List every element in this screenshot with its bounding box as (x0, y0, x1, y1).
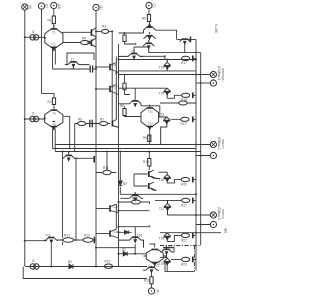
svg-text:R6: R6 (78, 118, 82, 122)
svg-text:T16: T16 (137, 234, 143, 238)
wire x116 lower (115, 204, 117, 229)
resistor R20 row3 (181, 116, 193, 122)
svg-text:R17: R17 (181, 61, 187, 65)
terminal pin1 (38, 3, 44, 9)
svg-text:R1: R1 (48, 19, 52, 23)
resistor R25 hatched (123, 35, 126, 42)
node j8 (95, 66, 97, 68)
wire T16 top (134, 227, 136, 241)
transistor T22 bottom left (44, 238, 58, 243)
transistor T4 bar (90, 40, 92, 47)
resistor R22 row5 (182, 198, 193, 204)
wire row2 lower y98.3 (167, 95, 196, 98)
svg-text:R12: R12 (132, 197, 138, 201)
wire topright block (177, 39, 196, 52)
wire T2 base y32.3 (63, 31, 91, 34)
terminal pin12 (210, 221, 216, 227)
diode D4b small (125, 231, 129, 235)
diode D1 bottom bus (69, 264, 73, 268)
wire D3 bottom to bus (149, 130, 151, 145)
current source I3 (30, 264, 39, 269)
svg-text:i1: i1 (32, 112, 35, 116)
svg-text:R8: R8 (120, 104, 124, 108)
transistor T10 joins (113, 95, 119, 128)
svg-text:T2: T2 (52, 43, 56, 47)
svg-text:R23: R23 (181, 262, 187, 266)
transistor T21 (143, 266, 159, 273)
wire CS1 feed (25, 36, 45, 38)
node j25 (134, 253, 136, 255)
wire y247.7 (96, 247, 135, 249)
transistor block3 TB (149, 182, 157, 190)
svg-text:R19: R19 (181, 122, 187, 126)
resistor R7 (100, 122, 108, 126)
resistor R6 (78, 122, 86, 126)
resistor R11 oval (103, 170, 111, 174)
svg-text:R4: R4 (82, 37, 86, 41)
wire bottom left row y240 (25, 239, 96, 242)
transistor topright small (180, 37, 191, 44)
svg-text:T19: T19 (112, 230, 118, 234)
terminal pin5 (210, 212, 216, 218)
node j3 (24, 240, 26, 242)
wire diode feed y232.3 (119, 231, 132, 233)
svg-text:(ВЫХ3): (ВЫХ3) (221, 209, 225, 219)
node j16 (195, 193, 197, 195)
node j23 (61, 239, 63, 241)
node j6 (95, 30, 97, 32)
transistor T5a upper X-pair (144, 22, 156, 34)
wire left rail x=25 (24, 10, 26, 266)
wire hatched R21 taps (125, 33, 136, 44)
svg-text:T3: T3 (52, 112, 56, 116)
diode D3 vertical (118, 181, 122, 185)
node j4 (44, 37, 46, 39)
wire y226.7 step (119, 225, 150, 226)
transistor row7 T (164, 258, 171, 266)
svg-text:T26: T26 (159, 178, 165, 182)
wire y53 link (67, 53, 94, 65)
resistor R1 (52, 16, 55, 24)
wire row4 links (158, 172, 196, 183)
svg-text:R10: R10 (143, 160, 149, 164)
node j34 (115, 72, 117, 74)
node j11 (195, 58, 197, 60)
svg-text:T7: T7 (71, 58, 75, 62)
wire T17 joins (111, 85, 119, 95)
svg-text:T17: T17 (112, 86, 118, 90)
wire y210.7 (119, 210, 150, 212)
transistor T7 left (65, 62, 90, 69)
terminal pin7 (146, 2, 152, 8)
wire T8 to row1 y56.3 (140, 56, 165, 60)
wire stage2 R row y123.5 (64, 116, 111, 151)
svg-text:R22: R22 (181, 238, 187, 242)
wire y52.6 cross (149, 52, 201, 54)
svg-text:T8: T8 (132, 50, 136, 54)
node j12 (195, 73, 197, 75)
svg-text:(ВЫХОД1): (ВЫХОД1) (221, 68, 225, 82)
node j18 (200, 223, 202, 225)
node j42 (117, 201, 119, 203)
terminal pin13 (51, 2, 57, 8)
transistor T17 (109, 86, 111, 93)
svg-text:(10)Вых.1: (10)Вых.1 (217, 66, 221, 81)
svg-text:Д3: Д3 (123, 182, 127, 186)
wire D1 top to R1 (53, 24, 55, 29)
node j1 (24, 36, 26, 38)
wire left col feed x118.5 (118, 44, 120, 267)
wire T9 base (96, 66, 109, 68)
node j26 (117, 253, 119, 255)
wire terminal4 drop x=96 (95, 11, 97, 267)
svg-text:T25: T25 (159, 91, 165, 95)
transistor T10 bar stage2 (111, 121, 113, 127)
svg-text:(3): (3) (28, 5, 32, 9)
wire X-pair base y33 (119, 32, 144, 34)
transistor row2 T right (164, 88, 171, 98)
wire row7 links (160, 258, 196, 272)
svg-text:i1: i1 (32, 259, 35, 263)
node j21 (95, 265, 97, 267)
transistor T14 mid (119, 101, 142, 106)
node j17 (195, 214, 197, 216)
wire right bus x196 (195, 39, 197, 270)
svg-text:(2): (2) (99, 6, 103, 10)
resistor R5 (147, 15, 150, 22)
svg-text:T24: T24 (159, 66, 165, 70)
node j19 (195, 232, 197, 234)
resistor R15 oval (105, 264, 113, 268)
node j40 (75, 157, 77, 159)
node j22 (75, 239, 77, 241)
resistor R14 oval (83, 238, 93, 242)
svg-text:R18: R18 (181, 98, 187, 102)
svg-text:R16: R16 (144, 279, 150, 283)
wire block3 top R x149 (148, 152, 150, 171)
svg-text:i1: i1 (32, 30, 35, 34)
svg-text:T1: T1 (52, 31, 56, 35)
wire bus y70.9 (119, 70, 197, 72)
wire right bottom frame (165, 263, 195, 272)
wire block3 oval R y172.5 (96, 152, 116, 173)
svg-text:T18: T18 (112, 205, 118, 209)
svg-text:(1): (1) (45, 4, 49, 8)
capacitor C1 plates (90, 120, 92, 127)
svg-text:T29: T29 (159, 262, 165, 266)
transistor T19 (109, 230, 111, 237)
transistor block3 TA (149, 170, 158, 178)
svg-text:Д1: Д1 (68, 260, 72, 264)
wire dash-dot boundary (160, 246, 201, 272)
transistor pair T11/T12 diamond D3 (141, 105, 159, 130)
transistor T6 top right small (143, 40, 154, 53)
wire row2 base y88.2 (119, 87, 168, 89)
wire row5 line y200.4 (155, 199, 196, 201)
resistor R17 row1 (182, 56, 193, 62)
diode D2 mid row (123, 252, 127, 256)
svg-text:(ВЫХ2): (ВЫХ2) (221, 139, 225, 149)
wire pin lines right mid (196, 145, 210, 156)
resistor R9 hatched (148, 135, 151, 142)
wire diode drop x120.3 (119, 152, 121, 195)
resistor R21 row4 (181, 177, 193, 183)
terminal pin9 (210, 80, 216, 86)
wire hatched R26 taps (125, 75, 131, 95)
terminal pin4 bottom (148, 288, 154, 294)
wire bottom rail y278.5 (23, 267, 147, 279)
wire stage1 load y31.4 (96, 31, 112, 120)
wire right bus x200.7 (200, 53, 202, 246)
resistor R12 (132, 200, 141, 204)
transistor row4 T (164, 175, 171, 182)
svg-text:R21: R21 (181, 203, 187, 207)
wire D2 top R (53, 105, 55, 110)
transistor T18 (109, 205, 111, 212)
svg-text:T4: T4 (52, 123, 56, 127)
wire row3 y119.3 (171, 118, 196, 120)
transistor T3 joins (92, 27, 96, 39)
capacitor C4 left mid (93, 156, 95, 163)
svg-text:R14: R14 (84, 234, 90, 238)
wire bus y152.5 (55, 151, 200, 153)
capacitor C3 top left pair (90, 66, 92, 73)
node j30 (61, 150, 63, 152)
node j14 (195, 143, 197, 145)
wire input2 line x=41 (42, 9, 55, 98)
svg-text:R15: R15 (105, 260, 111, 264)
svg-text:(4): (4) (156, 290, 160, 294)
node j24 (95, 247, 97, 249)
transistor T3 bar (90, 29, 92, 36)
wire left col feed x116 (115, 56, 117, 94)
wire y194 bus (120, 193, 196, 195)
node j13 (200, 82, 202, 84)
resistor R24 row7 (182, 257, 193, 263)
wire D2 bottom emitters (53, 129, 56, 152)
svg-text:R3: R3 (102, 25, 106, 29)
node j7 (111, 30, 113, 32)
transistor pair T3/T4 diamond D2 (45, 110, 63, 129)
resistor R2 (52, 98, 55, 105)
node j20 (50, 265, 52, 267)
wire block3 T pair bases (134, 174, 148, 186)
wire terminal5 drop x=149 (148, 9, 150, 15)
wire X-pair right y30 (156, 30, 177, 39)
wire T20 (161, 248, 175, 253)
transistor pair D4 (146, 249, 163, 265)
svg-text:T20: T20 (168, 246, 174, 250)
svg-text:(8)Вых.2: (8)Вых.2 (217, 137, 221, 150)
resistor R18 row2 (182, 92, 193, 98)
svg-text:R7: R7 (100, 118, 104, 122)
svg-text:(7): (7) (152, 4, 156, 8)
wire D3 right to T base (159, 116, 162, 118)
wire D1 bottom emitters (53, 48, 56, 69)
resistor R3 (102, 29, 109, 33)
node j29 (106, 150, 108, 152)
svg-text:(13): (13) (57, 4, 61, 10)
current source I2 (30, 116, 39, 121)
wire T14 mid column (134, 88, 136, 101)
node j38 (149, 32, 151, 34)
capacitor C2 plate (93, 237, 95, 244)
wire block3 T pair right (151, 176, 160, 191)
wire y106 link (141, 106, 160, 117)
wire T9 collector/emitter joins (111, 63, 119, 73)
wire cap to x96 (93, 68, 97, 70)
resistor R10 (148, 159, 151, 167)
terminal pin3 top-left (22, 4, 28, 10)
wire diode row y253.8 (119, 253, 147, 255)
wire pin lines right top (196, 82, 210, 84)
resistor R13 oval (63, 238, 74, 242)
wire T19 base (96, 233, 109, 235)
transistor T8 mid (119, 54, 144, 60)
wire x62.5 drop (62, 152, 64, 246)
wire T16 V to diode row (134, 244, 136, 254)
svg-text:T11: T11 (148, 110, 153, 114)
wire row1 R tail (194, 57, 197, 59)
wire mid R y202 (119, 202, 150, 204)
transistor row1 T right (164, 59, 171, 71)
node j5 (44, 117, 46, 119)
node j37 (135, 43, 137, 45)
svg-text:R11: R11 (103, 166, 109, 170)
wire T19 joins (111, 229, 119, 238)
current source I1 (30, 35, 39, 40)
wire T22 V drop x51.5 (50, 244, 52, 267)
wire bus y59.5 (119, 59, 197, 61)
transistor T5b lower X-pair (144, 36, 156, 41)
svg-text:T12: T12 (148, 122, 154, 126)
node j35 (164, 55, 166, 57)
svg-text:R2: R2 (48, 100, 52, 104)
resistor R8 hatched (123, 109, 126, 116)
wire bus y144 (55, 144, 210, 146)
terminal pin2 (93, 4, 99, 10)
svg-text:R13: R13 (64, 234, 70, 238)
resistor R23 row6 (181, 233, 193, 239)
terminal pin8 (210, 141, 216, 147)
transistor T13 right stage2 (159, 117, 171, 145)
svg-text:T9: T9 (112, 64, 116, 68)
node j31 (117, 210, 119, 212)
wire bus y74.5 pin10 (119, 74, 211, 76)
resistor R16 (150, 277, 153, 284)
wire R hatched y116 (125, 107, 142, 117)
node j33 (148, 150, 150, 152)
svg-text:T28: T28 (159, 237, 165, 241)
resistor R19 lone (179, 101, 187, 105)
svg-text:R5: R5 (142, 17, 146, 21)
transistor T20 (162, 246, 172, 259)
transistor left mid T (63, 152, 77, 161)
node j41 (95, 68, 97, 70)
node j10 (166, 58, 168, 60)
transistor T4 joins (92, 38, 96, 47)
svg-text:5-186: 5-186 (214, 24, 218, 33)
transistor pair T1/T2 input diamond D1 (45, 25, 63, 51)
resistor R4 (81, 41, 90, 45)
node j36 (123, 32, 125, 34)
svg-text:R20: R20 (181, 183, 187, 187)
wire T17 base (96, 88, 109, 90)
svg-text:T22: T22 (45, 234, 51, 238)
wire CS2 feed (25, 118, 45, 120)
svg-text:T27: T27 (159, 207, 165, 211)
wire T21 to R to pin (151, 273, 153, 288)
transistor T5 circle marker (88, 41, 90, 43)
svg-text:(5)Вых.3: (5)Вых.3 (217, 207, 221, 220)
node j39 (95, 122, 97, 124)
node j27 (117, 58, 119, 60)
terminal pin10 (210, 71, 216, 77)
transistor block3 TC mid (120, 192, 143, 201)
terminal pin6 (210, 152, 216, 158)
wire left mid T row y161 (75, 157, 94, 159)
wire D4 connections (144, 244, 167, 267)
node j9 (95, 88, 97, 90)
node j32 (117, 226, 119, 228)
wire lone R y103 (160, 102, 196, 104)
svg-text:T13: T13 (159, 113, 165, 117)
wire T18 joins (111, 204, 119, 213)
wire x76 drop (75, 158, 77, 240)
svg-text:R9: R9 (143, 136, 147, 140)
wire T8 module top y47 (134, 47, 149, 54)
node j2 (24, 118, 26, 120)
transistor row6 T (164, 233, 171, 240)
svg-text:Д2: Д2 (122, 248, 126, 252)
wire T18 base (96, 208, 109, 210)
transistor row5 T (164, 200, 171, 215)
wire pin lines right low (168, 215, 211, 225)
svg-text:кВ2: кВ2 (224, 228, 228, 234)
node j43 (117, 231, 119, 233)
wire input1 line x=54 (53, 9, 55, 16)
wire T3 base y42.5 (63, 42, 91, 44)
transistor T9 (109, 64, 111, 71)
node j15 (200, 154, 202, 156)
node j28 (119, 150, 121, 152)
transistor T16 (119, 237, 144, 248)
wire bus y149 (53, 148, 196, 150)
wire row6 links (160, 233, 196, 242)
wire bottom bus y266.5 (26, 266, 148, 268)
resistor R26 hatched (123, 83, 126, 90)
wire y69 run to cap (53, 68, 90, 70)
wire k vyv 2 stub (196, 232, 221, 234)
